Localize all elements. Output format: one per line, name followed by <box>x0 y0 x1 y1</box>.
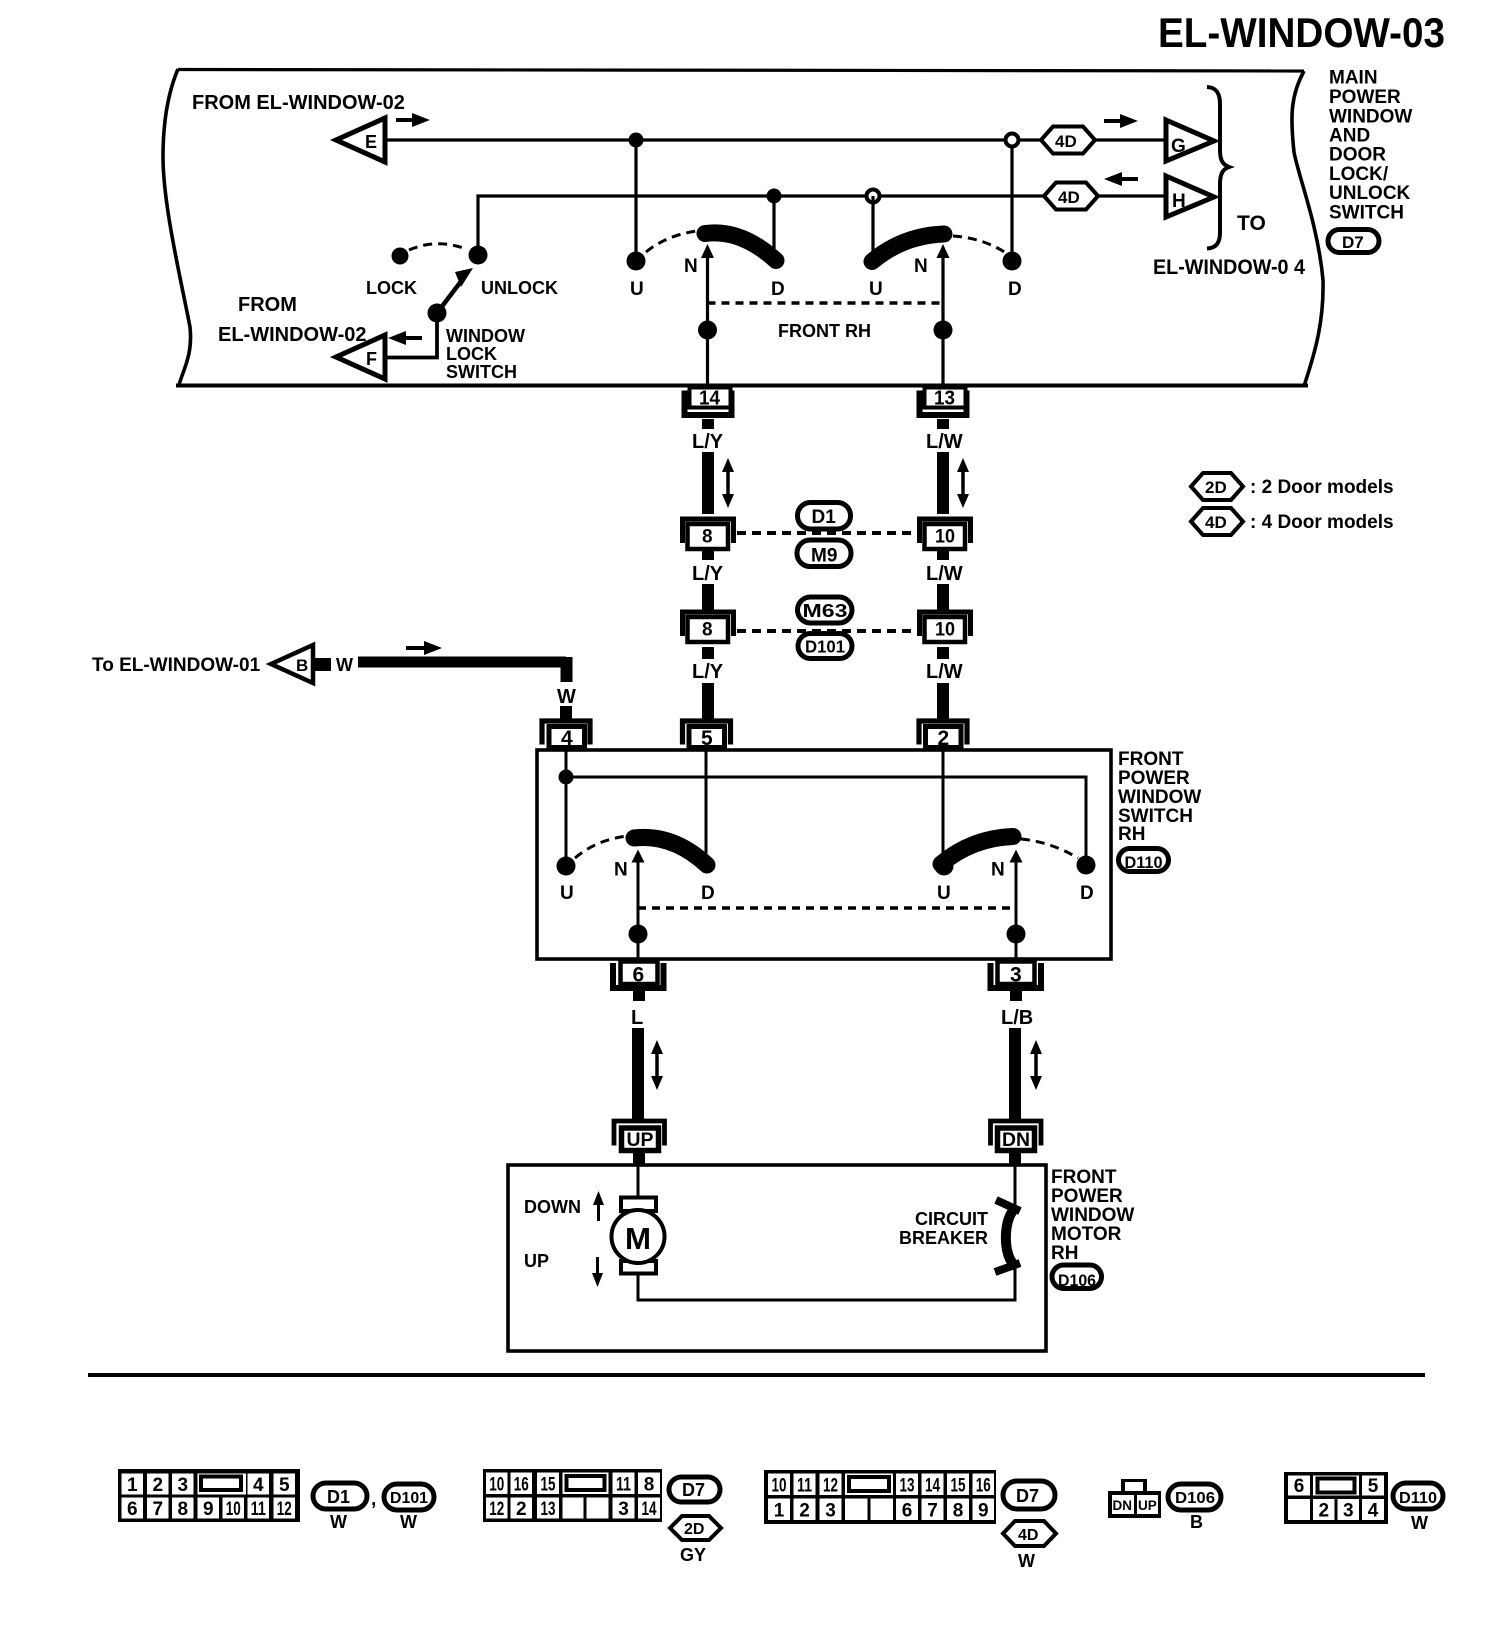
svg-text:D7: D7 <box>682 1480 705 1500</box>
svg-text:D106: D106 <box>1058 1271 1096 1290</box>
svg-text:L/Y: L/Y <box>692 563 724 585</box>
svg-text:BREAKER: BREAKER <box>899 1228 988 1248</box>
connector triangle E <box>336 113 430 162</box>
wire pin5 down to blade <box>705 750 708 856</box>
svg-text:MAIN: MAIN <box>1329 68 1378 89</box>
svg-text:10: 10 <box>935 527 955 548</box>
svg-text:4: 4 <box>1368 1501 1379 1522</box>
svg-text:POWER: POWER <box>1051 1186 1123 1207</box>
window lock switch: LOCK contact <box>392 248 409 265</box>
svg-text:U: U <box>937 883 951 904</box>
svg-text:W: W <box>330 1512 347 1532</box>
wire line1 E to 4D <box>385 138 1043 141</box>
pin 13 of D7 <box>920 388 967 416</box>
thick wire <box>937 647 949 659</box>
svg-text:D110: D110 <box>1399 1490 1437 1507</box>
svg-text:2: 2 <box>152 1475 163 1496</box>
svg-text:10: 10 <box>226 1499 241 1520</box>
svg-text:SWITCH: SWITCH <box>1329 203 1404 224</box>
thick wire <box>937 548 949 560</box>
svg-text:2: 2 <box>799 1501 810 1522</box>
svg-text:LOCK: LOCK <box>446 344 497 364</box>
svg-text:CIRCUIT: CIRCUIT <box>915 1209 988 1229</box>
svg-text:D106: D106 <box>1175 1490 1215 1507</box>
svg-text:8: 8 <box>177 1499 188 1520</box>
svg-text:3: 3 <box>1343 1501 1354 1522</box>
svg-text:D7: D7 <box>1016 1486 1039 1506</box>
connector ref D1 oval <box>798 503 851 530</box>
wire pin4 down and bus across <box>565 750 568 866</box>
pin 10 of D101 <box>920 612 971 642</box>
svg-text:M: M <box>625 1221 651 1256</box>
double arrow symbol <box>957 458 969 508</box>
svg-text:B: B <box>296 656 308 675</box>
svg-text:15: 15 <box>951 1476 966 1497</box>
svg-text:3: 3 <box>825 1501 836 1522</box>
svg-text:UNLOCK: UNLOCK <box>1329 183 1411 204</box>
svg-text:14: 14 <box>642 1499 657 1520</box>
connector ref D1 oval <box>313 1483 367 1509</box>
pin 8 of M63 <box>683 612 734 642</box>
double arrow symbol <box>1030 1040 1042 1090</box>
svg-text:D1: D1 <box>812 507 837 528</box>
svg-text:To EL-WINDOW-01: To EL-WINDOW-01 <box>92 655 261 676</box>
svg-text:9: 9 <box>203 1499 214 1520</box>
svg-text:12: 12 <box>823 1476 838 1497</box>
svg-text:D101: D101 <box>390 1490 428 1507</box>
connector triangle H <box>1166 176 1214 217</box>
main switch enclosure box (torn edges) <box>163 69 1323 386</box>
connector face D110 <box>1284 1472 1388 1524</box>
svg-text:W: W <box>1411 1513 1428 1533</box>
svg-text:D: D <box>1008 279 1022 300</box>
double arrow symbol <box>722 458 734 508</box>
connector ref D7 oval <box>669 1477 720 1502</box>
svg-text:4D: 4D <box>1058 188 1080 207</box>
svg-text:1: 1 <box>127 1475 138 1496</box>
svg-text:N: N <box>914 256 928 277</box>
svg-text:L: L <box>631 1007 643 1029</box>
wire stub below pin 3 <box>1010 991 1022 1001</box>
svg-text:LOCK/: LOCK/ <box>1329 164 1389 185</box>
svg-text:POWER: POWER <box>1329 87 1401 108</box>
node U contact (left sw) <box>557 857 576 876</box>
double arrow symbol <box>651 1040 663 1090</box>
svg-text:FROM: FROM <box>238 294 297 316</box>
svg-text:M9: M9 <box>811 546 837 567</box>
svg-text:AND: AND <box>1329 126 1370 147</box>
svg-text:16: 16 <box>514 1475 529 1496</box>
svg-text:D7: D7 <box>1342 233 1364 252</box>
wire stub below pin 6 <box>633 991 645 1001</box>
svg-text:8: 8 <box>702 620 713 641</box>
svg-text:6: 6 <box>633 964 645 987</box>
svg-text:W: W <box>336 655 353 675</box>
svg-text:L/Y: L/Y <box>692 431 724 453</box>
brace to EL-WINDOW-04 <box>1207 87 1229 249</box>
motor M circle <box>612 1210 665 1263</box>
svg-text:2: 2 <box>516 1499 527 1520</box>
svg-text:FROM EL-WINDOW-02: FROM EL-WINDOW-02 <box>192 92 405 114</box>
svg-text:4: 4 <box>561 727 573 750</box>
svg-text:16: 16 <box>976 1476 991 1497</box>
svg-text:UNLOCK: UNLOCK <box>481 278 558 298</box>
dashed tracking line between N arrows <box>708 301 944 305</box>
svg-text:D110: D110 <box>1125 853 1163 872</box>
svg-text:4D: 4D <box>1055 132 1077 151</box>
thick wire L/W <box>937 452 949 514</box>
node on N wire <box>1007 925 1026 944</box>
svg-text:U: U <box>869 279 883 300</box>
svg-text:D: D <box>771 279 785 300</box>
svg-text:WINDOW: WINDOW <box>1051 1205 1134 1226</box>
svg-text:2: 2 <box>938 727 950 750</box>
svg-text:E: E <box>365 132 377 152</box>
pin 2 of D110 <box>919 721 967 750</box>
svg-text:5: 5 <box>701 727 713 750</box>
N arrow wire down to pin 3 (right sw) <box>1015 861 1018 959</box>
svg-text:8: 8 <box>644 1475 655 1496</box>
svg-text:11: 11 <box>251 1499 266 1520</box>
4D hexagon (line1) <box>1041 127 1095 154</box>
svg-text:5: 5 <box>1368 1476 1379 1497</box>
svg-text:8: 8 <box>702 527 713 548</box>
wire stub below pin 14 <box>702 419 714 429</box>
svg-text:11: 11 <box>616 1475 631 1496</box>
svg-text:FRONT RH: FRONT RH <box>778 321 871 341</box>
right window switch (main sw): wire line2 down to U <box>871 196 874 252</box>
svg-text:WINDOW: WINDOW <box>1118 787 1201 808</box>
svg-text:4D: 4D <box>1018 1527 1038 1544</box>
thick wire W to pin 4 <box>358 657 566 668</box>
wire stubs into motor box <box>633 1153 645 1166</box>
svg-text:L/W: L/W <box>926 661 963 683</box>
node U contact (right sw) <box>935 857 954 876</box>
arrow right above W wire <box>406 641 442 655</box>
pin 6 of D110 <box>613 962 664 989</box>
connector face D7 (2door) <box>483 1469 662 1522</box>
dashed connector link D1/M9 <box>737 531 919 535</box>
node open circle on line2 <box>867 190 880 203</box>
svg-text:GY: GY <box>680 1545 706 1565</box>
svg-text:WINDOW: WINDOW <box>1329 107 1412 128</box>
connector ref D101 oval <box>384 1484 434 1510</box>
svg-text:1: 1 <box>774 1501 785 1522</box>
svg-text:: 4 Door models: : 4 Door models <box>1250 512 1394 533</box>
svg-text:RH: RH <box>1051 1243 1078 1264</box>
svg-text:2D: 2D <box>1205 478 1227 497</box>
pin 14 of D7 <box>685 388 732 416</box>
svg-text:15: 15 <box>541 1475 556 1496</box>
switch blade arc (right sw) <box>941 837 1013 865</box>
node U contact <box>627 252 646 271</box>
wire line1 4D to G <box>1094 138 1167 141</box>
stub after B <box>315 658 331 671</box>
svg-text:N: N <box>991 860 1005 881</box>
wire D up to line1 <box>1010 146 1013 252</box>
pin 10 of M9 <box>920 519 971 549</box>
svg-text:FRONT: FRONT <box>1118 749 1184 770</box>
svg-text:POWER: POWER <box>1118 768 1190 789</box>
dashed arc lock-unlock <box>409 244 466 250</box>
svg-text:4: 4 <box>253 1475 264 1496</box>
separator line <box>88 1373 1425 1377</box>
svg-text:MOTOR: MOTOR <box>1051 1224 1122 1245</box>
node junction below pin 4 <box>559 770 574 785</box>
svg-text:SWITCH: SWITCH <box>446 362 517 382</box>
connector ref D101 oval <box>798 634 852 659</box>
legend 2D hexagon <box>1191 473 1394 500</box>
svg-text:WINDOW: WINDOW <box>446 326 525 346</box>
svg-text:7: 7 <box>927 1501 938 1522</box>
node on N wire <box>629 925 648 944</box>
svg-text:11: 11 <box>797 1476 812 1497</box>
svg-text:F: F <box>366 349 377 369</box>
svg-text:3: 3 <box>1010 964 1022 987</box>
window lock switch: UNLOCK contact <box>469 246 488 265</box>
connector ref D110 oval <box>1393 1483 1443 1509</box>
connector face D7 (4door) <box>764 1470 996 1524</box>
connector ref D7 oval <box>1328 230 1379 253</box>
svg-text:10: 10 <box>935 620 955 641</box>
svg-text:W: W <box>1018 1551 1035 1571</box>
svg-text:: 2 Door models: : 2 Door models <box>1250 477 1394 498</box>
svg-text:L/W: L/W <box>926 563 963 585</box>
svg-text:2D: 2D <box>684 1521 704 1538</box>
svg-text:D101: D101 <box>805 637 845 657</box>
pin 5 of D110 <box>683 721 731 750</box>
pin UP of D106 <box>614 1121 665 1151</box>
svg-text:L/Y: L/Y <box>692 661 724 683</box>
N arrow wire down to pin 6 (left sw) <box>637 861 640 959</box>
thick wire <box>702 647 714 659</box>
connector triangle F <box>336 331 422 379</box>
node junction on line1 <box>629 133 644 148</box>
svg-text:10: 10 <box>772 1476 787 1497</box>
svg-text:LOCK: LOCK <box>366 278 417 298</box>
connector face D106 <box>1108 1479 1161 1518</box>
dashed arc blade to D <box>953 236 1006 253</box>
svg-text:G: G <box>1171 136 1186 157</box>
connector ref D106 oval <box>1168 1484 1221 1510</box>
svg-text:N: N <box>684 256 698 277</box>
dashed arc U to blade (left sw) <box>575 836 627 858</box>
dashed arc U to blade <box>646 231 697 252</box>
connector ref M63 oval <box>798 597 853 623</box>
node on N wire <box>698 321 717 340</box>
svg-text:EL-WINDOW-0 4: EL-WINDOW-0 4 <box>1153 256 1305 279</box>
front power window motor RH box <box>508 1165 1046 1351</box>
svg-text:UP: UP <box>627 1130 654 1151</box>
pin 3 of D110 <box>991 962 1042 989</box>
connector ref D7 oval <box>1003 1481 1055 1509</box>
svg-text:DOWN: DOWN <box>524 1197 581 1217</box>
svg-text:FRONT: FRONT <box>1051 1167 1117 1188</box>
svg-text:U: U <box>560 883 574 904</box>
svg-text:H: H <box>1172 191 1186 212</box>
svg-text:4D: 4D <box>1205 513 1227 532</box>
left window switch (main sw): wire line1 down to U <box>634 140 637 261</box>
connector face D1/D101 <box>118 1469 300 1522</box>
motor circuit wires <box>637 1166 640 1198</box>
svg-text:13: 13 <box>934 388 955 410</box>
thick wire L/Y <box>702 452 714 514</box>
svg-text:M63: M63 <box>803 600 848 621</box>
wire pivot to F <box>385 313 437 358</box>
node on N wire <box>934 321 953 340</box>
arrow left above H line <box>1104 172 1138 186</box>
svg-text:D: D <box>701 883 715 904</box>
wire line2 corner to 4D <box>478 196 1046 255</box>
switch lever arrow <box>437 280 462 313</box>
N arrow wire down to pin 14 <box>706 256 709 387</box>
connector triangle G <box>1166 120 1214 161</box>
svg-text:DN: DN <box>1113 1498 1133 1513</box>
svg-text:3: 3 <box>177 1475 188 1496</box>
4D hexagon ref <box>1003 1521 1056 1546</box>
svg-text:TO: TO <box>1237 212 1266 235</box>
4D hexagon (line2) <box>1044 183 1098 210</box>
svg-text:W: W <box>400 1512 417 1532</box>
svg-text:EL-WINDOW-03: EL-WINDOW-03 <box>1158 9 1445 56</box>
node D contact <box>1003 252 1022 271</box>
svg-text:L/W: L/W <box>926 431 963 453</box>
svg-text:8: 8 <box>953 1501 964 1522</box>
switch pivot node <box>428 304 447 323</box>
svg-text:D1: D1 <box>327 1487 350 1507</box>
svg-text:,: , <box>371 1489 376 1510</box>
svg-text:UP: UP <box>524 1251 549 1271</box>
svg-text:DN: DN <box>1002 1130 1030 1151</box>
front power window switch RH box <box>537 750 1111 959</box>
legend 4D hexagon <box>1191 508 1394 535</box>
motor M brushes <box>621 1198 656 1212</box>
connector ref D106 oval <box>1052 1265 1102 1290</box>
svg-text:9: 9 <box>978 1501 989 1522</box>
pin 4 of D110 <box>542 721 590 750</box>
circuit breaker symbol <box>1006 1208 1016 1266</box>
svg-text:UP: UP <box>1138 1498 1157 1513</box>
connector ref M9 oval <box>797 540 851 567</box>
N arrow wire down to pin 13 <box>941 256 944 387</box>
dashed connector link M63/D101 <box>737 629 919 633</box>
svg-text:U: U <box>630 279 644 300</box>
svg-text:10: 10 <box>489 1475 504 1496</box>
svg-text:6: 6 <box>127 1499 138 1520</box>
svg-text:W: W <box>557 686 576 708</box>
svg-text:6: 6 <box>1294 1476 1305 1497</box>
svg-text:N: N <box>614 860 628 881</box>
thick wire <box>702 548 714 560</box>
node open circle on line1 <box>1006 134 1019 147</box>
svg-text:6: 6 <box>902 1501 913 1522</box>
svg-text:2: 2 <box>1318 1501 1329 1522</box>
thick wire L/B <box>1009 1028 1021 1121</box>
svg-text:L/B: L/B <box>1001 1007 1033 1029</box>
wire pin2 down to U (right sw) <box>942 750 945 866</box>
svg-text:RH: RH <box>1118 824 1145 845</box>
svg-text:13: 13 <box>541 1499 556 1520</box>
svg-text:12: 12 <box>277 1499 292 1520</box>
svg-text:13: 13 <box>900 1476 915 1497</box>
wire stub above pin 4 <box>560 706 572 719</box>
pin 8 of D1 <box>683 519 734 549</box>
dashed tracking line in switch box <box>638 906 1016 910</box>
thick wire L <box>632 1028 644 1121</box>
node D contact (right sw) <box>1077 856 1096 875</box>
svg-text:EL-WINDOW-02: EL-WINDOW-02 <box>218 324 366 346</box>
dashed arc blade to D (right sw) <box>1021 839 1078 858</box>
connector ref D110 oval <box>1119 849 1169 873</box>
svg-text:3: 3 <box>618 1499 629 1520</box>
2D hexagon ref <box>670 1516 721 1540</box>
svg-text:12: 12 <box>489 1499 504 1520</box>
wire line2 down to D <box>772 196 775 252</box>
wire line2 4D to H <box>1094 194 1167 197</box>
node junction on line2 <box>767 189 782 204</box>
pin DN of D106 <box>991 1121 1042 1151</box>
svg-text:5: 5 <box>279 1475 290 1496</box>
wire stub below pin 13 <box>937 419 949 429</box>
arrow right above G line <box>1104 114 1138 128</box>
svg-text:14: 14 <box>925 1476 940 1497</box>
switch blade arc (left sw) <box>634 837 707 865</box>
switch blade arc <box>872 234 944 262</box>
switch blade arc <box>705 233 776 261</box>
svg-text:14: 14 <box>699 388 721 410</box>
svg-text:B: B <box>1190 1512 1203 1532</box>
svg-text:DOOR: DOOR <box>1329 145 1386 166</box>
svg-text:7: 7 <box>152 1499 163 1520</box>
connector triangle B <box>271 645 313 683</box>
svg-text:D: D <box>1080 883 1094 904</box>
